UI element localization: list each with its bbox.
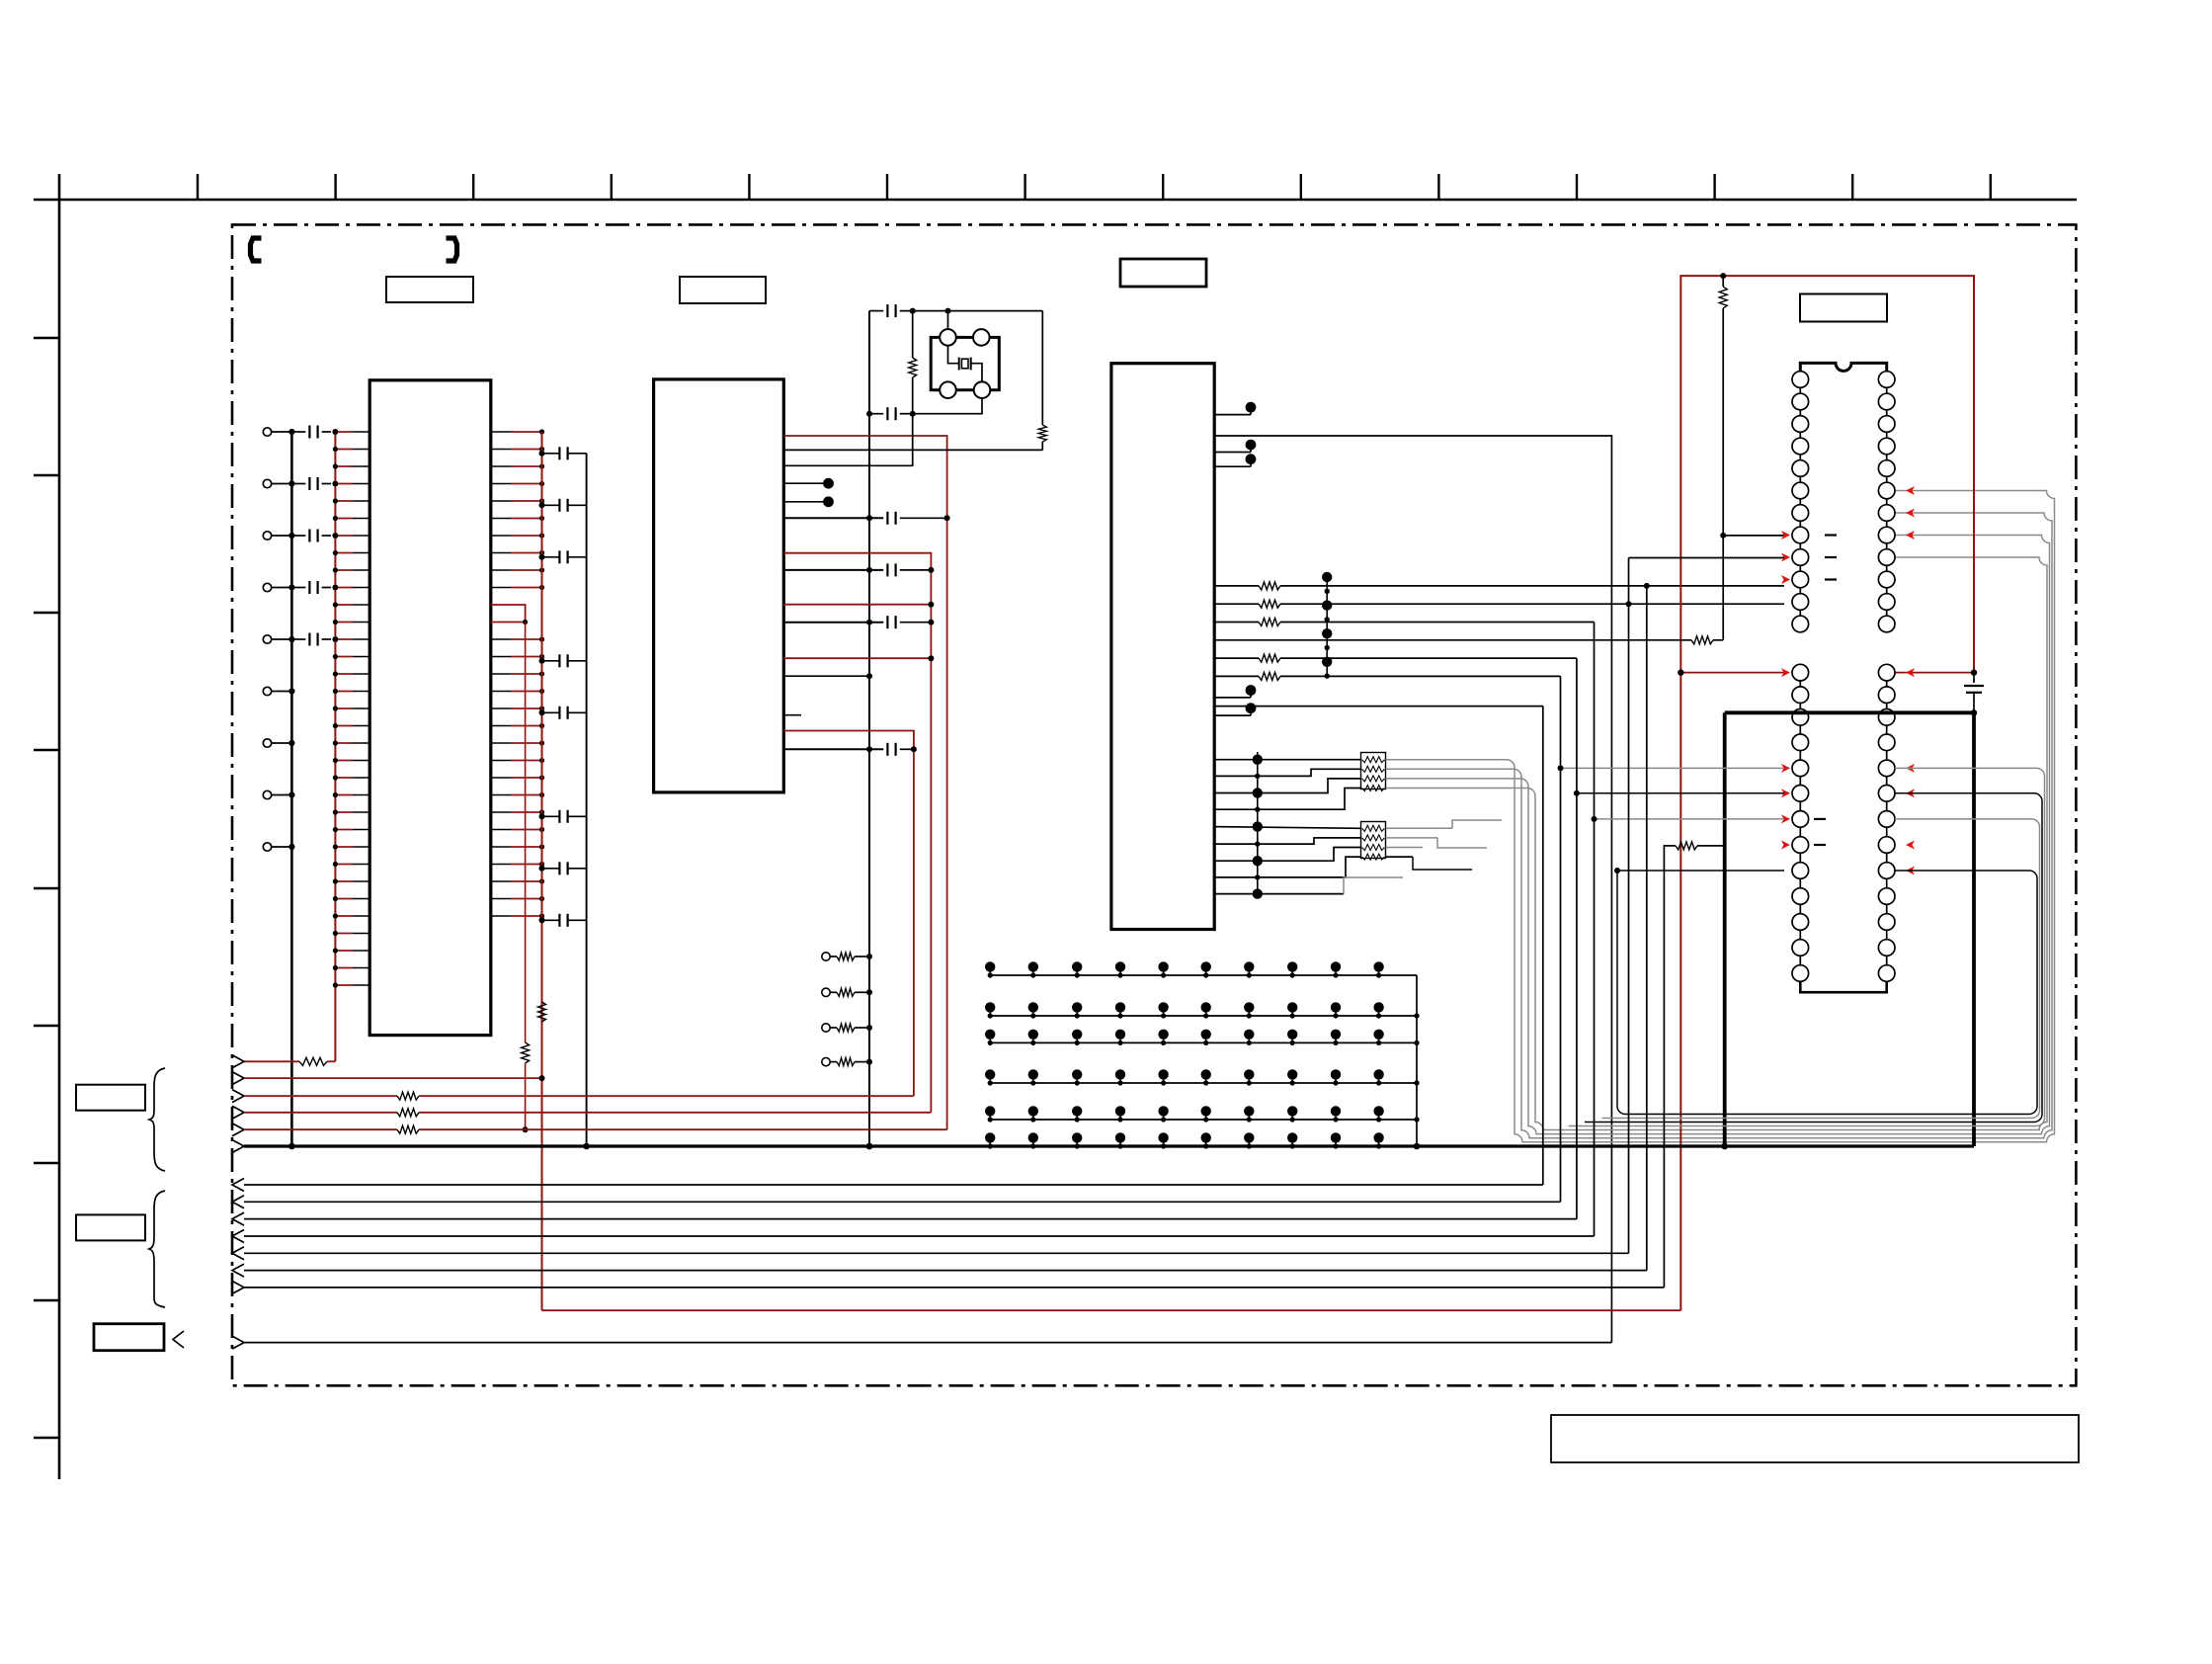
U4 right pin circles [1878, 372, 1895, 388]
resistor pack RP2 elements [1362, 825, 1385, 831]
test point TP1 [783, 482, 824, 484]
junction dot chain (key scan) [1257, 752, 1259, 894]
test point TP2 [783, 501, 824, 503]
junction dot chain right of U3 [1326, 577, 1328, 676]
resistor R21 [1214, 585, 1259, 587]
display wire loop (lower pins) [1577, 792, 1784, 794]
capacitor C24 [539, 658, 545, 664]
key matrix common vertical [1416, 975, 1418, 1146]
bus wire B1 [244, 1184, 1543, 1186]
U4 pin chain verticals [1799, 371, 1801, 624]
wire key row 3 loop to display [1214, 779, 1360, 793]
resistor R22 [1214, 603, 1259, 605]
display wire loop (lower pins) [1617, 870, 1784, 872]
wire CN1-4 (red) [244, 1112, 397, 1114]
supply rail box (red) around display driver [1680, 276, 1974, 1310]
wire CN1-3 (red) [244, 1095, 397, 1097]
black rail right of U1 [586, 454, 588, 1146]
bus wire B6 [244, 1270, 1647, 1272]
U3 wire row [1214, 706, 1543, 707]
capacitor C14 [291, 587, 305, 589]
wire key row 4 loop to display [1214, 789, 1360, 810]
wire crystal right leg [1041, 311, 1043, 425]
red feed to display pin [1680, 672, 1784, 674]
display wire loop (lower pins) [1595, 818, 1785, 820]
U2 pin wire (red) to row4 riser [783, 553, 931, 1113]
bus wire B2 [244, 1201, 1561, 1203]
capacitor C35 [783, 622, 883, 624]
U3 stub with test dot [1214, 714, 1251, 716]
U3 stub with test dot [1214, 414, 1251, 416]
capacitor C28 [539, 917, 545, 923]
resistor R32 [1670, 639, 1691, 641]
reference label box (U3) [1120, 259, 1206, 287]
title box [1551, 1415, 2079, 1462]
connector CN2 arrows [232, 1179, 244, 1192]
junction dot [1720, 533, 1726, 539]
capacitor C41 [1973, 673, 1975, 683]
display wire loop (lower pins) [1561, 767, 1785, 769]
frame top tick marks [197, 174, 199, 200]
resistor pack RP1 body [1361, 753, 1386, 790]
wire into crystal [947, 311, 949, 330]
resistor R8 [1038, 425, 1046, 442]
frame left tick marks [34, 337, 59, 339]
wire key row 2 loop to display [1214, 769, 1360, 776]
capacitor C23 [539, 554, 545, 560]
resistor R12 with test circle [822, 988, 830, 996]
board outline (dash-dot border) [232, 224, 2076, 1385]
IC U1 body [369, 380, 491, 1036]
bus wire B7 [244, 1287, 1664, 1289]
pin ladder rail (red) left of U1 [334, 432, 336, 1061]
board name brackets [251, 238, 262, 261]
junction dot on red rail [1720, 273, 1726, 279]
vertical bus wire left of U1 [290, 432, 293, 1146]
U1 right pin jog wires (red) [491, 604, 516, 606]
wire CN1-5 (red) [244, 1128, 397, 1130]
capacitor C15 [291, 638, 305, 640]
capacitor C11 [291, 431, 305, 433]
IC U3 body [1111, 364, 1214, 930]
resistor R7 [912, 311, 914, 358]
U1 right pin wires [491, 431, 511, 433]
drawing frame vertical ruler line [58, 174, 61, 1479]
brace for CN1 [149, 1068, 165, 1171]
capacitor C33 [783, 517, 883, 519]
resistor R6 on red rail [538, 1002, 546, 1022]
resistor R31 [1722, 276, 1724, 287]
capacitor C13 [291, 535, 305, 537]
capacitor C25 [539, 709, 545, 715]
input terminals (open circles) for U1 [263, 428, 271, 436]
bus wire B5 [244, 1252, 1629, 1254]
U2 pin wire to vertical [783, 675, 869, 677]
bus wire B3 [244, 1218, 1577, 1220]
wire key row 9 [1214, 893, 1344, 895]
junction dots on left bus [288, 429, 294, 435]
capacitor C26 [539, 813, 545, 819]
resistor R24 [1214, 657, 1259, 659]
IC U2 body [654, 379, 784, 792]
drawing frame horizontal ruler line [34, 199, 2077, 202]
resistor pack RP1 elements [1362, 757, 1385, 763]
capacitor C21 [539, 451, 545, 457]
resistor R11 with test circle [822, 953, 830, 960]
wire key row 7 [1214, 848, 1360, 862]
U2 pin wire (red) [783, 657, 931, 659]
key matrix row lines [990, 974, 1417, 976]
U2 pin wire to C32 node [783, 414, 912, 466]
connector CN3 arrow [232, 1336, 244, 1349]
U3 stub with test dot [1214, 452, 1251, 454]
connector CN1 arrows [232, 1055, 244, 1068]
wire key row 1 loop to display [1214, 759, 1360, 761]
U2 pin wire to crystal resistor [783, 449, 1042, 451]
wire key row 6 [1214, 838, 1360, 844]
U3 long wire to lower-right riser [1214, 436, 1611, 1343]
wire CN3 [244, 1342, 1611, 1344]
U3 stub with test dot [1214, 697, 1251, 699]
wire key row 5 [1214, 827, 1360, 829]
U4 package bottom [1800, 981, 1886, 992]
wire [900, 310, 1043, 312]
bus wire B4 [244, 1235, 1595, 1237]
resistor R23 [1214, 622, 1259, 624]
angle mark for CN3 [173, 1331, 184, 1348]
U4 left pin circles [1792, 372, 1809, 388]
U1 left pin wires [335, 431, 353, 433]
red pin arrows (right column) [1906, 486, 1915, 495]
U2 pin wire (red) to row5 riser [783, 436, 946, 1129]
capacitor C31 [886, 304, 888, 317]
wire crystal bottom [913, 398, 982, 414]
crystal X1 element [958, 358, 960, 371]
resistor R13 with test circle [822, 1024, 830, 1032]
capacitor C36 [783, 748, 883, 750]
crystal X1 pad circles [940, 329, 956, 346]
display driver U4 package outline [1800, 363, 1886, 371]
wire to display pin [1723, 535, 1784, 537]
capacitor C34 [783, 569, 883, 571]
capacitor C12 [291, 483, 305, 485]
U2 pin stub [783, 714, 801, 716]
reference label box (U2) [680, 277, 766, 303]
U3 wire row [1214, 639, 1670, 641]
red feed right side [1895, 672, 1974, 674]
capacitor C27 [539, 866, 545, 872]
red pin arrows (left column) [1781, 531, 1790, 540]
ground bus wire [244, 1144, 1974, 1147]
U2 pin wire (red) [783, 604, 931, 606]
resistor R25 [1214, 675, 1259, 677]
reference label box (U1) [386, 277, 473, 302]
wire crystal top rail [869, 310, 883, 312]
key switch matrix (6x10 keys) [985, 961, 995, 971]
U3 stub with test dot [1214, 465, 1251, 467]
wire [1041, 442, 1043, 450]
fluorescent display body [1725, 712, 1974, 1146]
vertical wire left of crystal [868, 311, 870, 1146]
resistor pack RP2 body [1361, 822, 1386, 859]
resistor R1 feeding U1 rail [244, 1060, 299, 1062]
capacitor C22 [539, 502, 545, 508]
U2 pin wire (red) to row3 riser [783, 731, 914, 1097]
wire CN1-2 (red) [244, 1077, 542, 1079]
resistor R5 on red drop wire [525, 623, 527, 1043]
connector label box CN1 [76, 1085, 145, 1111]
wire out of crystal [971, 364, 982, 382]
reference label box (U4) [1800, 294, 1887, 322]
wire key row 8 [1214, 857, 1360, 877]
crystal X1 sub-circuit box [931, 337, 999, 389]
connector label box CN3 [94, 1324, 164, 1351]
red rail right of U1 [541, 432, 543, 1310]
pin marks [1825, 534, 1837, 536]
brace for CN2 [149, 1191, 165, 1307]
capacitor C32 [869, 413, 883, 415]
connector label box CN2 [76, 1214, 145, 1240]
resistor R14 with test circle [822, 1057, 830, 1065]
red supply return wire [542, 1309, 1681, 1311]
